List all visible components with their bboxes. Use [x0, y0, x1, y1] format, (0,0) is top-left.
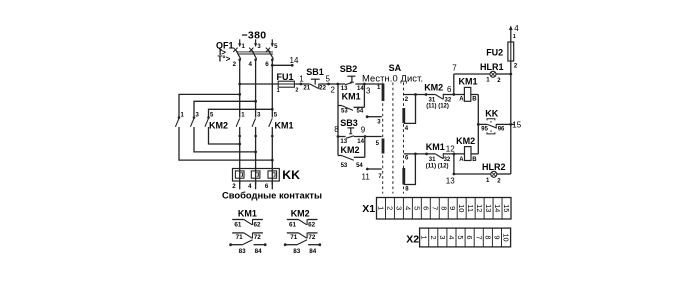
svg-text:71: 71: [236, 234, 244, 241]
svg-text:(11) (12): (11) (12): [426, 164, 449, 170]
svg-text:71: 71: [290, 234, 298, 241]
svg-text:KK: KK: [282, 168, 300, 182]
svg-text:3: 3: [366, 86, 371, 95]
svg-text:12: 12: [446, 144, 455, 153]
svg-text:KK: KK: [485, 109, 498, 119]
svg-text:32: 32: [444, 157, 451, 163]
svg-text:84: 84: [255, 248, 263, 255]
svg-text:54: 54: [356, 163, 363, 169]
svg-text:KM2: KM2: [209, 121, 228, 131]
svg-text:83: 83: [239, 248, 247, 255]
svg-text:SB1: SB1: [306, 67, 324, 77]
svg-text:9: 9: [448, 206, 457, 210]
svg-text:1: 1: [376, 206, 385, 210]
svg-text:8: 8: [334, 125, 339, 134]
svg-text:6: 6: [421, 206, 430, 210]
svg-text:−380: −380: [242, 30, 267, 42]
svg-text:61: 61: [289, 221, 297, 228]
svg-text:8: 8: [483, 235, 492, 239]
svg-text:11: 11: [362, 173, 371, 182]
svg-text:84: 84: [309, 248, 317, 255]
svg-text:5: 5: [326, 74, 331, 83]
svg-text:2: 2: [385, 206, 394, 210]
svg-text:KM1: KM1: [459, 77, 478, 87]
svg-text:9: 9: [492, 235, 501, 239]
svg-text:7: 7: [474, 235, 483, 239]
svg-text:15: 15: [502, 204, 511, 212]
svg-text:96: 96: [498, 126, 505, 132]
svg-text:B: B: [472, 96, 477, 102]
svg-text:13: 13: [446, 177, 455, 186]
svg-text:2: 2: [429, 235, 438, 239]
svg-text:62: 62: [254, 221, 262, 228]
svg-text:T°>: T°>: [218, 55, 231, 64]
svg-text:6: 6: [447, 85, 452, 94]
svg-text:13: 13: [484, 204, 493, 212]
svg-text:KM2: KM2: [456, 136, 475, 146]
svg-text:72: 72: [254, 234, 262, 241]
svg-text:6: 6: [465, 235, 474, 239]
svg-text:KM2: KM2: [291, 208, 310, 218]
svg-text:2: 2: [233, 61, 237, 68]
svg-text:KM2: KM2: [424, 83, 443, 93]
svg-text:A: A: [459, 157, 464, 163]
svg-text:62: 62: [308, 221, 316, 228]
svg-text:X1: X1: [362, 203, 375, 215]
svg-text:14: 14: [290, 56, 299, 65]
svg-text:1: 1: [277, 88, 280, 94]
svg-text:11: 11: [466, 204, 475, 212]
svg-text:5: 5: [456, 235, 465, 239]
svg-text:SB2: SB2: [340, 64, 358, 74]
svg-text:21: 21: [303, 85, 310, 91]
svg-text:1: 1: [513, 34, 516, 40]
svg-text:5: 5: [412, 206, 421, 210]
svg-text:B: B: [472, 157, 477, 163]
svg-text:Местн.0 Дист.: Местн.0 Дист.: [362, 73, 423, 84]
svg-text:4: 4: [447, 235, 456, 239]
svg-text:KM1: KM1: [426, 142, 445, 152]
svg-text:12: 12: [475, 204, 484, 212]
svg-text:4: 4: [514, 24, 519, 33]
svg-text:3: 3: [438, 235, 447, 239]
svg-text:FU2: FU2: [486, 48, 503, 58]
svg-text:6: 6: [265, 61, 269, 68]
svg-text:4: 4: [403, 206, 412, 210]
svg-text:1: 1: [299, 75, 304, 84]
svg-text:KM1: KM1: [238, 208, 257, 218]
svg-text:A: A: [459, 96, 464, 102]
svg-text:1: 1: [420, 235, 429, 239]
svg-text:9: 9: [361, 125, 366, 134]
svg-text:10: 10: [502, 233, 511, 241]
svg-text:53: 53: [341, 109, 348, 115]
svg-text:FU1: FU1: [277, 72, 294, 82]
svg-text:2: 2: [331, 86, 336, 95]
svg-text:10: 10: [457, 204, 466, 212]
svg-text:95: 95: [481, 126, 488, 132]
svg-text:SA: SA: [389, 63, 402, 73]
svg-text:15: 15: [512, 121, 521, 130]
svg-text:8: 8: [439, 206, 448, 210]
svg-text:54: 54: [357, 109, 364, 115]
svg-text:(11) (12): (11) (12): [426, 103, 449, 109]
svg-text:3: 3: [394, 206, 403, 210]
svg-text:HLR1: HLR1: [480, 62, 504, 72]
svg-text:KM2: KM2: [341, 145, 360, 155]
svg-text:7: 7: [430, 206, 439, 210]
svg-text:Свободные контакты: Свободные контакты: [222, 190, 322, 201]
svg-text:61: 61: [234, 221, 242, 228]
svg-text:53: 53: [341, 163, 348, 169]
svg-text:72: 72: [308, 234, 316, 241]
svg-text:4: 4: [249, 61, 253, 68]
svg-text:7: 7: [452, 64, 457, 73]
svg-text:X2: X2: [406, 233, 419, 245]
svg-text:14: 14: [493, 204, 502, 212]
svg-text:SB3: SB3: [340, 118, 358, 128]
svg-text:HLR2: HLR2: [482, 162, 506, 172]
svg-text:KM1: KM1: [342, 92, 361, 102]
svg-text:2: 2: [295, 88, 298, 94]
svg-text:31: 31: [429, 157, 436, 163]
svg-text:KM1: KM1: [275, 121, 294, 131]
svg-text:83: 83: [293, 248, 301, 255]
svg-text:22: 22: [319, 86, 326, 92]
